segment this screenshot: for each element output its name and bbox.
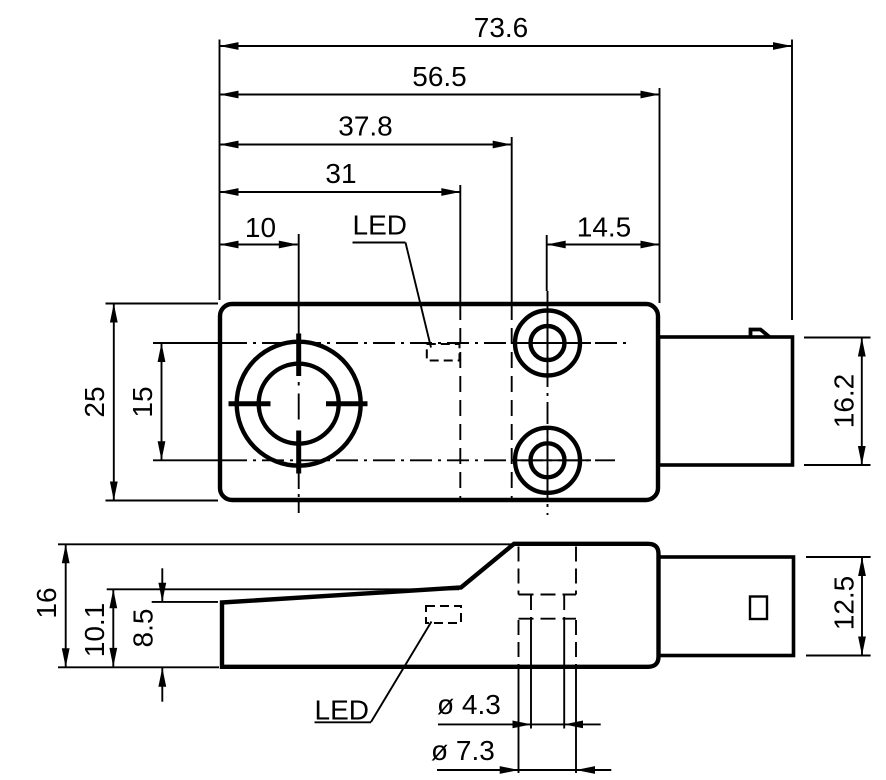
LED window top view (dashed): [427, 344, 460, 361]
svg-text:12.5: 12.5: [829, 576, 860, 631]
dimension 8.5: [128, 568, 219, 701]
horizontal centerline bottom: [153, 459, 225, 461]
svg-text:10.1: 10.1: [79, 603, 110, 658]
svg-text:LED: LED: [315, 695, 369, 726]
svg-text:37.8: 37.8: [338, 111, 393, 142]
extension lines hole diameters: [519, 619, 577, 773]
small hole upper crosshair: [515, 342, 592, 344]
svg-text:56.5: 56.5: [412, 61, 467, 92]
svg-text:15: 15: [127, 386, 158, 417]
dimension 15: [127, 343, 165, 460]
svg-text:31: 31: [325, 158, 356, 189]
dimension 14.5: [547, 212, 660, 292]
body outline top view: [220, 304, 658, 500]
big hole crosshair: [229, 334, 368, 474]
big hole inner circle: [259, 364, 339, 444]
svg-text:16.2: 16.2: [829, 374, 860, 429]
small hole lower crosshair: [515, 459, 592, 461]
svg-text:8.5: 8.5: [128, 609, 159, 648]
svg-text:73.6: 73.6: [474, 12, 529, 43]
dimension dia 4.3: [437, 689, 601, 728]
dimension 16: [31, 544, 512, 667]
dimension 12.5: [806, 557, 871, 656]
connector keyway square: [750, 597, 767, 620]
svg-text:ø 4.3: ø 4.3: [437, 689, 501, 720]
connector side view: [659, 557, 794, 656]
LED label top view: [353, 210, 432, 348]
dimension 31: [220, 158, 461, 500]
dimension 73.6: [220, 12, 793, 320]
dimension 25: [79, 304, 218, 501]
dimension 10: [220, 212, 298, 248]
vertical centerline small holes: [547, 291, 549, 515]
horizontal centerline top (through upper holes): [153, 342, 225, 344]
connector latch tab top view: [751, 330, 770, 338]
svg-text:10: 10: [245, 212, 276, 243]
dimension 56.5: [220, 61, 660, 303]
hidden hole lines side view: counterbore upper: [519, 547, 577, 666]
body outline side view: [222, 544, 659, 667]
svg-text:ø 7.3: ø 7.3: [431, 735, 495, 766]
svg-text:16: 16: [31, 587, 62, 618]
svg-text:14.5: 14.5: [577, 212, 632, 243]
small hole lower: [515, 428, 580, 493]
dimension 37.8: [220, 111, 512, 501]
vertical centerline big hole: [298, 234, 300, 334]
connector top view: [659, 337, 793, 465]
svg-text:LED: LED: [353, 210, 407, 241]
dimension dia 7.3: [431, 735, 611, 774]
dimension 16.2: [804, 338, 871, 466]
LED window side view (dashed): [426, 606, 461, 623]
big hole outer circle: [237, 342, 361, 466]
small hole upper: [515, 311, 580, 376]
LED leader side view: [371, 622, 432, 723]
dimension 10.1: [79, 589, 459, 667]
svg-text:25: 25: [79, 386, 110, 417]
